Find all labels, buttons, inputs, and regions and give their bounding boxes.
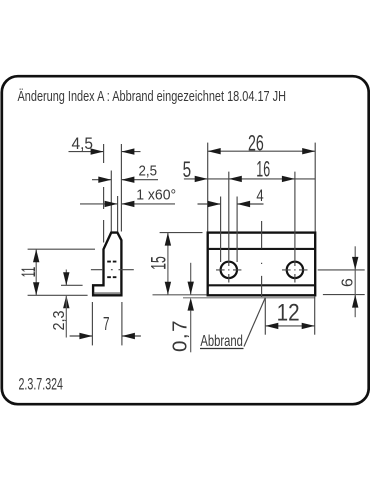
- svg-text:0,7: 0,7: [170, 319, 192, 352]
- arrow 7 left: [79, 333, 92, 339]
- hole right crosshair: [282, 172, 308, 283]
- arrow 7 right: [122, 333, 135, 339]
- arrow 11 bottom: [33, 282, 39, 295]
- svg-text:2,5: 2,5: [139, 163, 158, 180]
- dim line 7: [70, 335, 141, 337]
- dim 6 extension bottom: [323, 294, 365, 296]
- dim line 5 and 16: [184, 178, 315, 180]
- dim line 2,3 lower tail: [65, 295, 67, 337]
- svg-text:5: 5: [183, 157, 192, 182]
- svg-text:4: 4: [256, 186, 263, 205]
- bottom extension line (left of rect): [153, 294, 207, 296]
- dim 11 extension bottom: [28, 294, 88, 296]
- arrow 26 right: [302, 148, 315, 154]
- hole left crosshair: [216, 172, 241, 283]
- arrow 0,7 top: [188, 282, 194, 295]
- vertical centerline middle: [261, 221, 263, 297]
- arrow 4 left: [208, 201, 221, 207]
- dim 12 extension right: [314, 296, 316, 335]
- svg-text:Abbrand: Abbrand: [200, 333, 243, 350]
- arrow 6 top: [352, 257, 358, 270]
- svg-text:Änderung Index A : Abbrand ein: Änderung Index A : Abbrand eingezeichnet…: [18, 88, 287, 105]
- arrow 2,3 bottom: [63, 295, 69, 308]
- profile outline: [93, 233, 121, 296]
- hole left: [221, 262, 237, 278]
- arrow 12 left: [265, 323, 278, 329]
- dim 26 extension left: [207, 143, 209, 232]
- arrow 12 right: [302, 323, 315, 329]
- svg-text:12: 12: [277, 300, 300, 327]
- dim line 11: [35, 249, 37, 295]
- svg-text:7: 7: [103, 314, 110, 334]
- svg-text:15: 15: [147, 256, 170, 270]
- dim line 6: [354, 246, 356, 317]
- inner edge upper (11 level): [208, 248, 316, 250]
- svg-text:2.3.7.324: 2.3.7.324: [19, 375, 64, 394]
- svg-text:26: 26: [248, 131, 264, 156]
- svg-text:11: 11: [19, 267, 40, 278]
- Abbrand underline: [200, 348, 244, 350]
- dim 4 extension left: [220, 197, 222, 263]
- abbrand line (front view): [183, 297, 315, 299]
- dim 0,7 upper line: [190, 263, 192, 295]
- dim 26 extension right: [314, 143, 316, 232]
- Abbrand leader line: [244, 298, 265, 347]
- arrow 5 right: [195, 176, 208, 182]
- dim extension for 2,5: [110, 171, 112, 232]
- dim line 2,5: [92, 179, 158, 181]
- front view rectangle: [208, 233, 316, 296]
- arrow 0,7 bottom: [188, 298, 194, 311]
- arrow 16 left: [229, 176, 242, 182]
- arrow 4,5 right: [121, 148, 134, 154]
- dim line 26: [208, 150, 316, 152]
- svg-text:16: 16: [256, 157, 270, 182]
- dim 0,7 lower line: [190, 311, 192, 353]
- hidden hole edge (lower dashes): [107, 276, 116, 278]
- arrow 26 left: [208, 148, 221, 154]
- svg-text:2,3: 2,3: [51, 310, 68, 330]
- dim 15 extension top: [160, 232, 203, 234]
- arrow 6 bottom: [352, 295, 358, 308]
- dim line 1x60: [80, 203, 175, 205]
- inner edge lower (2,3 level): [208, 284, 316, 286]
- arrow 4,5 left: [91, 148, 104, 154]
- arrow 11 top: [33, 249, 39, 262]
- dim line 15: [167, 233, 169, 295]
- horizontal centerline (left view): [91, 269, 134, 271]
- dim line 4: [198, 203, 264, 205]
- dim 7 extension right: [121, 302, 123, 345]
- dim line 4,5: [69, 151, 141, 153]
- dim line 12: [265, 325, 314, 327]
- svg-text:4,5: 4,5: [72, 135, 94, 153]
- arrow 4 right: [237, 201, 250, 207]
- dim line 2,3 upper tail: [65, 270, 67, 286]
- svg-text:1 x60°: 1 x60°: [136, 187, 176, 204]
- arrow 2,3 top: [63, 272, 69, 285]
- drawing sheet border: [2, 76, 369, 404]
- arrow 2,5 left: [98, 177, 111, 183]
- arrow 1x60 left: [105, 201, 118, 207]
- arrow 1x60 right: [121, 201, 134, 207]
- dim extension right edge (shared 4,5 / 2,5 / 1x60): [120, 144, 122, 232]
- dim 12 extension left: [264, 298, 266, 335]
- dim 2,3 extension: [61, 284, 83, 286]
- arrow 15 bottom: [165, 282, 171, 295]
- arrow 2,5 right: [121, 177, 134, 183]
- dim 6 extension top: [318, 269, 365, 271]
- svg-text:6: 6: [340, 278, 357, 287]
- abbrand inner line (left view): [94, 292, 122, 294]
- dim extension for 1x60: [117, 196, 119, 232]
- hidden hole edge (upper dashes): [107, 261, 116, 263]
- dim 7 extension left: [91, 302, 93, 345]
- arrow 15 top: [165, 233, 171, 246]
- dim 11 extension top: [28, 248, 95, 250]
- dim 4,5 extension tick left: [103, 144, 105, 243]
- hole right: [287, 262, 303, 278]
- dim 4 extension right: [236, 197, 238, 263]
- arrow 16 right: [282, 176, 295, 182]
